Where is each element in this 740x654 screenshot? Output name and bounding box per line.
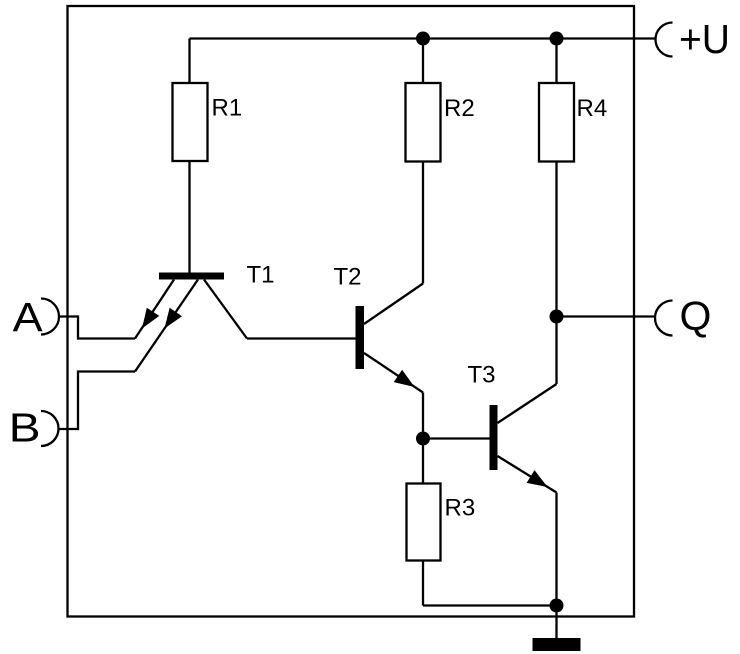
wire R3 bottom vertical xyxy=(422,561,424,606)
svg-text:A: A xyxy=(13,294,44,340)
IC enclosure box xyxy=(68,6,635,617)
ground xyxy=(533,638,581,651)
wire Q output xyxy=(557,315,656,317)
wire T2 emitter vertical to node xyxy=(422,393,424,439)
wire T3 emitter diagonal xyxy=(498,456,557,493)
wire R2 top xyxy=(422,39,424,84)
svg-text:R2: R2 xyxy=(444,95,475,122)
wire input A vertical xyxy=(77,315,79,339)
svg-text:R4: R4 xyxy=(577,95,608,122)
svg-text:R1: R1 xyxy=(212,95,243,122)
wire R1 top xyxy=(188,39,190,84)
junction node T2 emitter / T3 base xyxy=(416,432,430,446)
wire T2 collector diagonal xyxy=(364,284,423,325)
terminal arc B xyxy=(41,411,59,446)
transistor T3 emitter arrow xyxy=(527,470,548,487)
resistor R4 xyxy=(539,83,574,162)
wire input B vertical xyxy=(77,370,79,430)
wire ground stub xyxy=(555,606,557,639)
wire T1 emitter 1 diagonal xyxy=(135,280,174,339)
svg-text:+U: +U xyxy=(679,16,730,62)
wire bottom rail xyxy=(423,604,557,606)
junction node top rail R2 xyxy=(416,32,430,46)
resistor R1 xyxy=(173,83,208,161)
transistor T2 base bar xyxy=(356,306,365,369)
junction node Q xyxy=(550,310,564,324)
wire T1 emitter 2 diagonal xyxy=(135,280,198,372)
terminal arc Q xyxy=(655,301,673,336)
wire T1 collector diagonal xyxy=(204,280,247,339)
wire input A horizontal inner xyxy=(78,337,135,339)
transistor T1 emitter arrow 1 xyxy=(142,308,159,329)
wire T1 collector to T2 base xyxy=(247,337,356,339)
wire input B to terminal xyxy=(59,428,78,430)
wire R2 bottom to T2 collector xyxy=(422,162,424,284)
wire top rail xyxy=(190,37,657,39)
wire input A to terminal xyxy=(59,315,78,317)
terminal arc A xyxy=(41,299,59,335)
wire T3 emitter vertical xyxy=(555,493,557,606)
resistor R2 xyxy=(406,83,441,162)
transistor T3 base bar xyxy=(490,405,498,470)
wire T3 collector diagonal xyxy=(498,384,557,423)
transistor T1 emitter arrow 2 xyxy=(165,308,183,329)
svg-text:B: B xyxy=(9,405,41,451)
svg-text:R3: R3 xyxy=(445,495,476,522)
wire T2 emitter diagonal xyxy=(364,353,423,393)
svg-text:Q: Q xyxy=(680,293,712,339)
junction node top rail R4 xyxy=(550,32,564,46)
transistor T1 base bar xyxy=(159,273,224,280)
svg-text:T1: T1 xyxy=(247,262,275,289)
wire node to R3 top xyxy=(422,439,424,484)
wire R1 bottom to T1 base xyxy=(188,161,190,273)
transistor T2 emitter arrow xyxy=(394,370,415,387)
wire node to T3 base xyxy=(423,437,490,439)
wire R4 top xyxy=(555,39,557,84)
junction node bottom rail xyxy=(550,599,564,613)
wire input B horizontal inner xyxy=(78,370,135,372)
svg-text:T3: T3 xyxy=(468,362,496,389)
wire R4 bottom to T3 collector via node Q xyxy=(555,162,557,385)
terminal arc +U xyxy=(656,23,673,57)
resistor R3 xyxy=(407,484,441,561)
svg-text:T2: T2 xyxy=(334,263,362,290)
